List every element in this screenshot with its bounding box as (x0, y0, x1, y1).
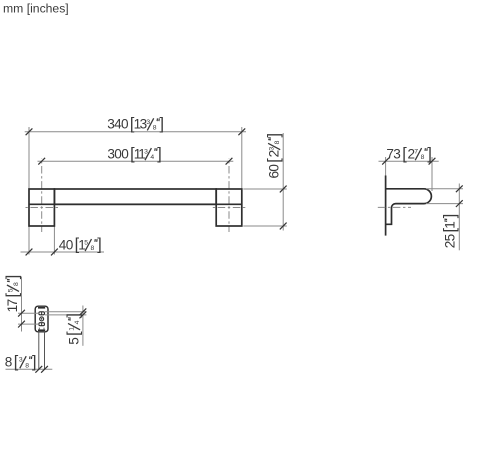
extension line 5 top (45, 311, 87, 313)
dimension line 73 (379, 160, 439, 162)
tick 340 right (238, 128, 245, 135)
svg-text:]: ] (97, 236, 102, 254)
extension line 5 bottom (45, 314, 87, 316)
dimension text 73 [2 7/8"] (386, 145, 432, 163)
tick 17 top (18, 310, 25, 317)
bar front view (54, 189, 216, 204)
svg-text:]: ] (32, 353, 37, 371)
extension line 60 top (243, 188, 286, 190)
svg-text:[: [ (265, 158, 283, 163)
extension line 17 bottom (18, 323, 39, 325)
tick 60 top (280, 186, 287, 193)
tick 73 right (429, 158, 436, 165)
detail small tick left (38, 328, 40, 330)
dimension text 40 [1 5/8"] (59, 236, 102, 254)
tick 8 left (35, 366, 42, 373)
svg-text:7: 7 (5, 299, 20, 307)
dimension text 300 [11 3/4"] (107, 145, 161, 163)
dimension text 17 [5/8"] rotated (4, 275, 22, 313)
dimension text 60 [2 3/8"] rotated (265, 133, 283, 179)
dimension line 40 (21, 251, 105, 253)
tick 73 left (382, 158, 389, 165)
detail stem line left (38, 332, 40, 370)
centerline right post (228, 158, 230, 232)
tick 8 right (41, 366, 48, 373)
tick 40 left (26, 249, 33, 256)
svg-text:]: ] (4, 275, 22, 280)
svg-text:8: 8 (13, 282, 20, 286)
svg-text:5: 5 (443, 234, 458, 242)
tick 5 top (80, 308, 87, 315)
detail bottom slot (39, 323, 45, 326)
dimension line 8 (6, 368, 53, 370)
dimension text 25 [1"] rotated (441, 214, 459, 249)
tick 300 right (226, 158, 233, 165)
svg-text:0: 0 (121, 117, 129, 132)
tick 40 right (51, 249, 58, 256)
svg-text:1: 1 (443, 221, 458, 229)
svg-text:8: 8 (153, 124, 157, 131)
extension line 73 right (431, 157, 433, 191)
svg-text:[: [ (402, 145, 407, 163)
extension line 25 bottom (426, 203, 463, 205)
extension line 25 top (426, 188, 463, 190)
side view wall line (385, 176, 387, 236)
tick 17 bottom (18, 321, 25, 328)
svg-text:]: ] (427, 145, 432, 163)
svg-text:5: 5 (66, 337, 81, 345)
horizontal centerline left post (26, 207, 59, 209)
dimension text 5 [1/4"] rotated (65, 313, 83, 345)
svg-text:4: 4 (150, 154, 154, 161)
tick 340 left (26, 128, 33, 135)
svg-text:]: ] (441, 214, 459, 218)
detail top slot (39, 312, 45, 315)
svg-text:]: ] (265, 133, 283, 138)
detail bottom cap (38, 329, 45, 331)
svg-text:8: 8 (421, 154, 425, 161)
extension line 17 top (18, 312, 39, 314)
tick 60 bottom (280, 223, 287, 230)
tick 5 bottom (80, 312, 87, 319)
detail screw circle (40, 317, 44, 321)
detail top slot divider (41, 312, 43, 315)
dimension text 340 [13 3/8"] (107, 115, 164, 133)
dimension text 8 [3/8"] (5, 353, 37, 371)
dimension line 5 (82, 306, 84, 346)
svg-text:0: 0 (266, 164, 281, 172)
detail screw cross (41, 318, 43, 320)
svg-text:]: ] (160, 115, 165, 133)
dimension line 25 (458, 184, 460, 251)
bar bottom line across posts (29, 203, 242, 205)
svg-text:]: ] (65, 313, 83, 318)
svg-text:0: 0 (121, 146, 129, 161)
centerline left post (41, 158, 43, 232)
svg-text:8: 8 (25, 362, 29, 369)
extension line 73 left (385, 157, 387, 176)
extension line 60 bottom (243, 225, 286, 227)
tick 25 top (456, 185, 463, 192)
svg-text:8: 8 (274, 140, 281, 144)
svg-text:mm [inches]: mm [inches] (3, 2, 69, 16)
svg-text:8: 8 (5, 355, 13, 370)
detail view body (top view of post) (35, 306, 48, 332)
detail bottom slot divider (41, 323, 43, 326)
dimension line 60 (282, 133, 284, 231)
svg-text:0: 0 (66, 237, 74, 252)
horizontal centerline right post (213, 207, 246, 209)
left post front view (29, 189, 54, 226)
detail stem line right (44, 332, 46, 370)
svg-text:8: 8 (91, 245, 95, 252)
tick 300 left (38, 158, 45, 165)
side view bar profile (386, 189, 432, 225)
side view centerline (378, 206, 411, 208)
detail top cap (38, 307, 45, 309)
tick 25 bottom (456, 200, 463, 207)
dimension line 340 (25, 131, 246, 133)
svg-text:]: ] (157, 145, 162, 163)
extension line left edge front view (28, 127, 30, 255)
detail small tick right (43, 328, 45, 330)
extension line 40 right (53, 226, 55, 255)
svg-text:3: 3 (393, 146, 401, 161)
extension line 340 right (241, 127, 243, 189)
dimension line 17 (21, 277, 23, 332)
svg-text:4: 4 (74, 320, 81, 324)
right post front view (216, 189, 242, 226)
dimension line 300 (38, 160, 234, 162)
